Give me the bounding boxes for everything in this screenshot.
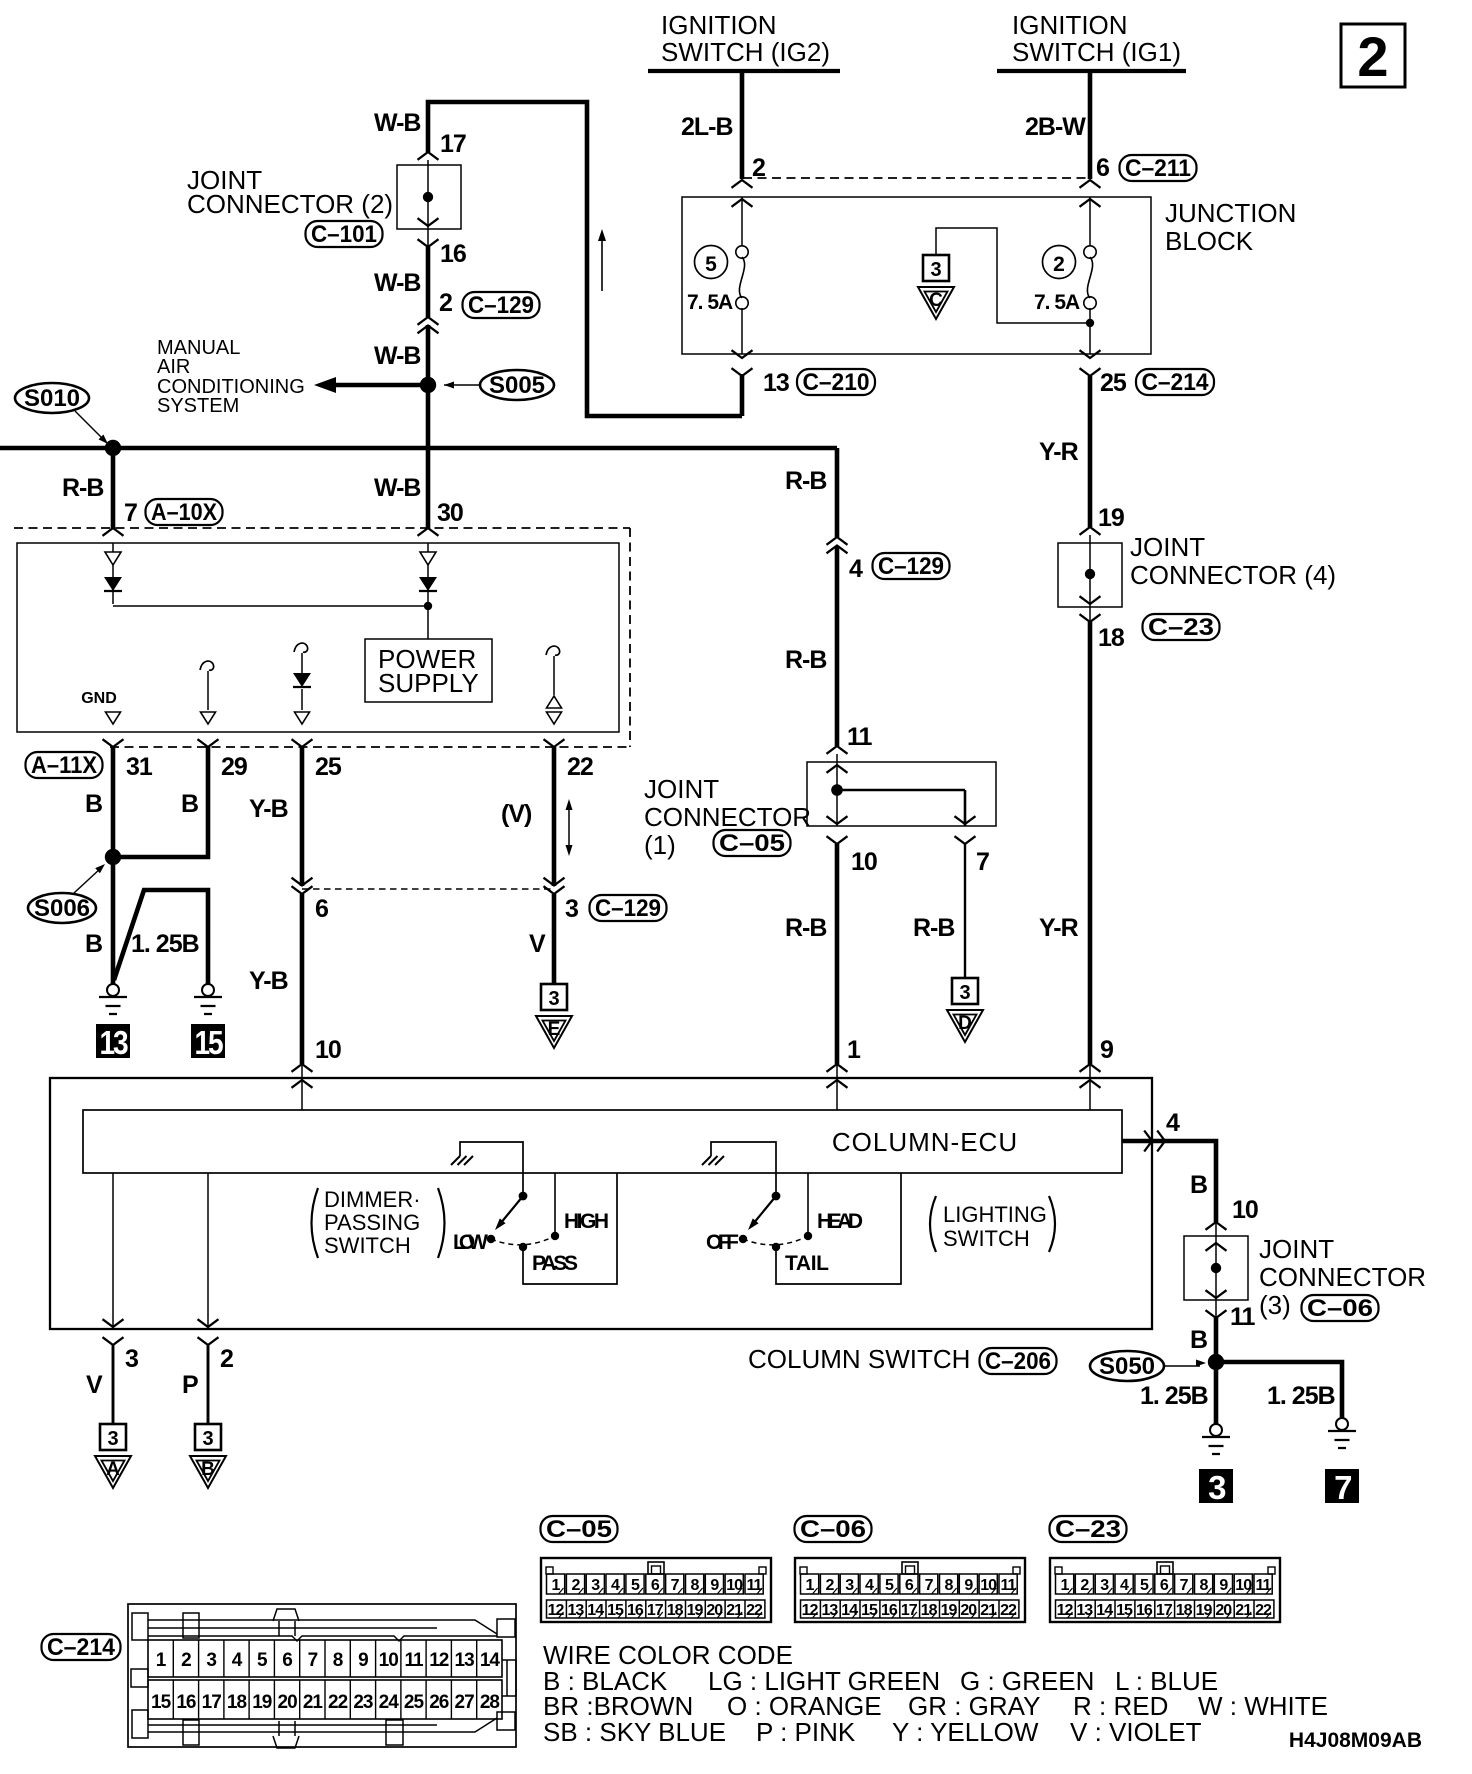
wire R-B from joint connector pin 10 to column switch pin 1: [835, 844, 840, 1064]
svg-text:18: 18: [1098, 624, 1125, 652]
svg-text:10: 10: [851, 848, 877, 876]
wire W-B branch to manual air conditioning system: [336, 383, 428, 388]
svg-text:JUNCTION: JUNCTION: [1165, 198, 1296, 228]
internal output pin 29 symbol: [200, 661, 214, 670]
wire R-B horizontal bus from S010: [0, 446, 837, 451]
svg-text:30: 30: [437, 499, 463, 527]
wire R-B from S010 to pin 7: [111, 448, 116, 528]
svg-text:S050: S050: [1099, 1353, 1155, 1380]
svg-text:2: 2: [571, 1577, 580, 1594]
lighting switch lever: [772, 1192, 781, 1201]
wire B from C-06 pin 11 to splice S050: [1214, 1316, 1219, 1362]
splice S050: [1090, 1351, 1164, 1381]
svg-text:20: 20: [278, 1692, 298, 1713]
svg-text:2L-B: 2L-B: [681, 113, 733, 141]
connector pinout C-05: [541, 1516, 618, 1542]
svg-text:25: 25: [315, 753, 342, 781]
svg-text:7: 7: [671, 1577, 680, 1594]
svg-text:V: V: [86, 1371, 103, 1399]
svg-text:21: 21: [303, 1692, 324, 1713]
column switch pin 9 entry: [1080, 1064, 1101, 1072]
fuse 2 (7.5A) in junction block: [1043, 246, 1076, 279]
svg-text:2: 2: [181, 1650, 191, 1671]
svg-text:17: 17: [202, 1692, 222, 1713]
svg-text:W-B: W-B: [374, 342, 420, 370]
svg-text:DIMMER·: DIMMER·: [324, 1187, 421, 1212]
svg-text:9: 9: [1219, 1577, 1228, 1594]
svg-text:B: B: [1190, 1326, 1207, 1354]
pin 25 chevron: [292, 739, 313, 747]
wire W-B from C-129 to splice S005: [426, 325, 431, 385]
svg-text:4: 4: [1120, 1577, 1129, 1594]
wire Y-B from pin 25: [300, 747, 305, 886]
svg-text:11: 11: [404, 1650, 424, 1671]
svg-text:24: 24: [379, 1692, 400, 1713]
svg-text:3: 3: [107, 1428, 118, 1450]
svg-text:E: E: [548, 1019, 561, 1040]
svg-text:13: 13: [1076, 1602, 1093, 1619]
ground C link wire inside junction block: [936, 228, 1088, 323]
wire Y-R from C-214 to joint connector C-23: [1088, 376, 1093, 527]
wire W-B from C-101 to C-129: [426, 247, 431, 317]
svg-text:C–06: C–06: [1307, 1295, 1373, 1322]
svg-text:20: 20: [1215, 1602, 1232, 1619]
svg-text:8: 8: [1200, 1577, 1209, 1594]
svg-text:W-B: W-B: [374, 474, 420, 502]
svg-text:26: 26: [429, 1692, 449, 1713]
splice S005: [420, 377, 436, 393]
svg-text:3: 3: [1208, 1469, 1226, 1506]
svg-text:16: 16: [1136, 1602, 1153, 1619]
svg-text:(V): (V): [501, 800, 532, 828]
svg-text:25: 25: [404, 1692, 425, 1713]
svg-text:C–206: C–206: [985, 1348, 1051, 1375]
svg-text:Y-B: Y-B: [249, 795, 288, 823]
svg-text:5: 5: [885, 1577, 894, 1594]
svg-text:2: 2: [1357, 25, 1388, 88]
svg-text:4: 4: [849, 555, 863, 583]
svg-text:5: 5: [1140, 1577, 1149, 1594]
svg-text:15: 15: [1116, 1602, 1133, 1619]
svg-text:6: 6: [1160, 1577, 1169, 1594]
svg-text:1: 1: [552, 1577, 561, 1594]
svg-text:LIGHTING: LIGHTING: [943, 1202, 1047, 1227]
lighting switch label: [930, 1196, 936, 1252]
svg-text:9: 9: [358, 1650, 368, 1671]
ground 7: [1336, 1418, 1348, 1430]
svg-text:2B-W: 2B-W: [1025, 113, 1086, 141]
ground symbol C (3): [923, 255, 949, 281]
svg-text:CONNECTOR: CONNECTOR: [644, 802, 811, 832]
svg-text:21: 21: [1235, 1602, 1252, 1619]
dimmer passing switch label: [312, 1188, 319, 1258]
svg-text:1. 25B: 1. 25B: [1267, 1382, 1335, 1410]
wire 2L-B from ignition switch IG2: [740, 71, 745, 179]
svg-text:W-B: W-B: [374, 109, 420, 137]
svg-text:C–214: C–214: [1142, 369, 1210, 396]
svg-text:1: 1: [1061, 1577, 1070, 1594]
svg-text:A–10X: A–10X: [151, 499, 217, 526]
svg-text:1. 25B: 1. 25B: [1140, 1382, 1208, 1410]
svg-text:C–101: C–101: [311, 221, 377, 248]
svg-text:19: 19: [687, 1602, 704, 1619]
wire R-B corner down to C-129 pin 4: [835, 448, 840, 537]
svg-text:16: 16: [881, 1602, 898, 1619]
svg-text:20: 20: [706, 1602, 723, 1619]
pin 29 chevron: [198, 739, 219, 747]
wire R-B from C-129 to joint connector C-05: [835, 546, 840, 746]
svg-text:9: 9: [710, 1577, 719, 1594]
svg-text:22: 22: [1255, 1602, 1272, 1619]
svg-text:10: 10: [980, 1577, 997, 1594]
wire V from column ECU pin 3: [112, 1173, 114, 1327]
svg-text:16: 16: [176, 1692, 196, 1713]
connector pinout C-214: [42, 1634, 121, 1660]
svg-text:21: 21: [726, 1602, 743, 1619]
svg-text:22: 22: [328, 1692, 348, 1713]
internal diode on pin 30 line: [427, 543, 429, 604]
svg-text:PASSING: PASSING: [324, 1210, 420, 1235]
joint connector (3) C-06: [1206, 1222, 1227, 1230]
svg-text:6: 6: [1096, 154, 1109, 182]
ground A (3): [100, 1424, 126, 1450]
svg-text:3: 3: [548, 988, 559, 1010]
svg-text:12: 12: [1057, 1602, 1074, 1619]
dimmer/passing switch chassis ground: [460, 1142, 523, 1192]
connector A-11X dashed line: [110, 746, 630, 748]
svg-text:A: A: [106, 1459, 120, 1480]
svg-text:3: 3: [1100, 1577, 1109, 1594]
svg-text:C–05: C–05: [719, 830, 785, 857]
svg-text:12: 12: [802, 1602, 819, 1619]
svg-text:SWITCH: SWITCH: [324, 1233, 411, 1258]
svg-text:SYSTEM: SYSTEM: [157, 395, 239, 417]
svg-text:11: 11: [1230, 1303, 1256, 1331]
wire PASS contact loop to ECU: [523, 1173, 617, 1284]
svg-text:W-B: W-B: [374, 269, 420, 297]
svg-text:3: 3: [202, 1428, 213, 1450]
wire V to ground E: [552, 894, 557, 984]
svg-text:C–129: C–129: [878, 553, 944, 580]
svg-text:LOW: LOW: [453, 1231, 488, 1254]
dimmer switch lever: [519, 1192, 528, 1201]
svg-text:13: 13: [822, 1602, 839, 1619]
svg-text:14: 14: [1096, 1602, 1113, 1619]
svg-text:6: 6: [651, 1577, 660, 1594]
svg-text:3: 3: [565, 895, 578, 923]
svg-text:4: 4: [611, 1577, 620, 1594]
svg-text:15: 15: [195, 1024, 224, 1061]
svg-text:AIR: AIR: [157, 356, 190, 378]
svg-text:C–06: C–06: [800, 1516, 866, 1543]
wire R-B from joint connector pin 7 to ground D: [964, 844, 966, 978]
svg-text:7: 7: [925, 1577, 934, 1594]
svg-text:20: 20: [960, 1602, 977, 1619]
dimmer switch contacts LOW PASS HIGH: [487, 1235, 495, 1243]
wire TAIL contact loop to ECU: [776, 1173, 901, 1284]
svg-text:14: 14: [841, 1602, 858, 1619]
svg-text:18: 18: [1176, 1602, 1193, 1619]
svg-text:B: B: [85, 930, 102, 958]
svg-text:13: 13: [568, 1602, 585, 1619]
svg-text:SUPPLY: SUPPLY: [378, 668, 479, 698]
svg-text:JOINT: JOINT: [644, 774, 719, 804]
svg-text:P: P: [182, 1371, 198, 1399]
svg-text:2: 2: [1080, 1577, 1089, 1594]
svg-text:1. 25B: 1. 25B: [131, 930, 199, 958]
wire W-B bus from C-210 to joint connector C-101: [740, 374, 745, 416]
dashed connector outline right edge: [629, 528, 631, 747]
svg-text:19: 19: [1098, 504, 1124, 532]
svg-text:R-B: R-B: [785, 646, 826, 674]
ground B (3): [195, 1424, 221, 1450]
node: fuse2 output to ground C: [1086, 319, 1094, 327]
connector C-211 dashed line: [743, 177, 1090, 179]
column switch outer box: [50, 1078, 1152, 1329]
svg-text:19: 19: [252, 1692, 272, 1713]
svg-text:C–211: C–211: [1125, 155, 1191, 182]
splice S006: [105, 849, 121, 865]
svg-text:S005: S005: [489, 372, 545, 399]
column switch pin 1 entry: [827, 1064, 848, 1072]
wire B from pin 31: [111, 747, 116, 857]
svg-text:10: 10: [1232, 1196, 1258, 1224]
wire B from COLUMN-ECU pin 4: [1122, 1141, 1216, 1222]
svg-text:17: 17: [647, 1602, 664, 1619]
svg-text:21: 21: [980, 1602, 997, 1619]
svg-text:SWITCH: SWITCH: [943, 1226, 1030, 1251]
svg-text:4: 4: [1166, 1109, 1180, 1137]
svg-text:SWITCH (IG1): SWITCH (IG1): [1012, 37, 1181, 67]
bidirectional arrow: [568, 806, 570, 849]
svg-text:19: 19: [941, 1602, 958, 1619]
svg-text:22: 22: [1000, 1602, 1017, 1619]
svg-text:7: 7: [1334, 1469, 1351, 1506]
svg-text:B: B: [1190, 1171, 1207, 1199]
internal node wire to power supply: [113, 605, 428, 607]
lighting switch contacts OFF TAIL HEAD: [739, 1235, 747, 1243]
svg-text:10: 10: [1235, 1577, 1252, 1594]
page number 2 box: [1341, 24, 1405, 87]
svg-text:16: 16: [440, 240, 466, 268]
ground D (3): [952, 978, 978, 1004]
svg-text:SWITCH (IG2): SWITCH (IG2): [661, 37, 830, 67]
svg-text:5: 5: [705, 253, 717, 276]
svg-text:25: 25: [1100, 369, 1127, 397]
internal diode output pin 25 symbol: [294, 643, 308, 652]
connector A-10X dashed line: [14, 527, 630, 529]
pin 22 chevron: [544, 739, 565, 747]
svg-text:14: 14: [587, 1602, 604, 1619]
joint connector C-101 (JOINT CONNECTOR (2)): [418, 152, 439, 160]
connector A-10X label: [146, 499, 223, 525]
svg-text:IGNITION: IGNITION: [1012, 10, 1128, 40]
wire 1.25B right to ground 7: [1216, 1362, 1342, 1418]
wire (V) from pin 22: [552, 747, 557, 886]
svg-text:7: 7: [1180, 1577, 1189, 1594]
svg-text:B: B: [85, 790, 102, 818]
svg-text:17: 17: [901, 1602, 918, 1619]
svg-text:4: 4: [865, 1577, 874, 1594]
svg-text:13: 13: [100, 1024, 129, 1061]
svg-text:6: 6: [315, 895, 328, 923]
connector pinout C-06: [795, 1516, 872, 1542]
svg-text:3: 3: [959, 982, 970, 1004]
svg-text:13: 13: [763, 369, 789, 397]
svg-text:TAIL: TAIL: [785, 1252, 829, 1275]
wire W-B from S005 to pin 30: [426, 385, 431, 528]
joint connector (1) C-05: [827, 746, 848, 754]
svg-text:JOINT: JOINT: [1259, 1234, 1334, 1264]
svg-text:B: B: [201, 1459, 215, 1480]
svg-text:1: 1: [156, 1650, 167, 1671]
svg-text:GND: GND: [81, 690, 117, 707]
svg-text:7. 5A: 7. 5A: [1034, 291, 1080, 314]
svg-text:C–23: C–23: [1148, 614, 1214, 641]
control unit internal box: [17, 543, 619, 732]
svg-text:19: 19: [1196, 1602, 1213, 1619]
svg-text:COLUMN-ECU: COLUMN-ECU: [832, 1127, 1018, 1157]
connector C-129 pin 3: [544, 878, 565, 886]
svg-text:17: 17: [1156, 1602, 1173, 1619]
svg-text:12: 12: [548, 1602, 565, 1619]
svg-text:7: 7: [124, 499, 137, 527]
internal diode on pin 7 line: [112, 543, 114, 604]
svg-text:17: 17: [440, 130, 466, 158]
svg-text:22: 22: [567, 753, 593, 781]
svg-text:10: 10: [379, 1650, 399, 1671]
svg-text:29: 29: [221, 753, 247, 781]
svg-text:C–129: C–129: [595, 895, 661, 922]
wire HEAD contact to ECU: [807, 1173, 809, 1232]
svg-text:2: 2: [1053, 253, 1065, 276]
wire HIGH contact to ECU: [554, 1173, 556, 1232]
svg-text:9: 9: [964, 1577, 973, 1594]
svg-text:C–129: C–129: [468, 292, 534, 319]
svg-text:18: 18: [667, 1602, 684, 1619]
svg-text:D: D: [958, 1013, 972, 1034]
wire P from column ECU pin 2: [207, 1173, 209, 1327]
svg-text:5: 5: [631, 1577, 640, 1594]
svg-text:R-B: R-B: [62, 474, 103, 502]
svg-text:Y-R: Y-R: [1039, 438, 1079, 466]
svg-text:15: 15: [151, 1692, 172, 1713]
svg-text:S006: S006: [34, 895, 90, 922]
svg-text:OFF: OFF: [706, 1231, 739, 1254]
connector C-214 pin 25: [1080, 350, 1101, 358]
junction block box: [682, 197, 1151, 354]
svg-text:3: 3: [930, 259, 941, 281]
pin 31 chevron: [103, 739, 124, 747]
svg-text:11: 11: [747, 1577, 763, 1594]
svg-text:JOINT: JOINT: [1130, 532, 1205, 562]
pin 30 chevron: [418, 528, 439, 536]
svg-text:6: 6: [282, 1650, 292, 1671]
COLUMN-ECU box: [83, 1110, 1122, 1173]
svg-text:2: 2: [439, 289, 452, 317]
svg-text:R-B: R-B: [785, 467, 826, 495]
svg-text:12: 12: [429, 1650, 449, 1671]
svg-text:H4J08M09AB: H4J08M09AB: [1289, 1729, 1422, 1752]
wire 2B-W from ignition switch IG1: [1088, 71, 1093, 179]
svg-text:1: 1: [806, 1577, 815, 1594]
svg-text:C–23: C–23: [1055, 1516, 1121, 1543]
svg-text:7: 7: [308, 1650, 318, 1671]
connector C-129 pin 4: [827, 537, 848, 545]
ground E (3): [541, 984, 567, 1010]
svg-text:1: 1: [847, 1036, 861, 1064]
pin 7 chevron: [103, 528, 124, 536]
svg-text:22: 22: [746, 1602, 763, 1619]
svg-text:CONNECTOR: CONNECTOR: [1259, 1262, 1426, 1292]
svg-text:CONNECTOR (4): CONNECTOR (4): [1130, 560, 1336, 590]
splice S010: [15, 383, 89, 413]
ground 13: [107, 984, 119, 996]
svg-text:COLUMN SWITCH: COLUMN SWITCH: [748, 1344, 970, 1374]
ground 15: [202, 984, 214, 996]
joint connector (4) C-23: [1080, 527, 1101, 535]
connector C-129 pins 6 and 3 dashed link: [302, 888, 554, 890]
svg-text:R-B: R-B: [913, 914, 954, 942]
flow direction arrow: [601, 236, 603, 291]
svg-text:7: 7: [976, 848, 989, 876]
svg-text:HIGH: HIGH: [564, 1210, 609, 1233]
fuse 5 (7.5A) in junction block: [695, 246, 728, 279]
connector C-210 pin 13: [732, 350, 753, 358]
svg-text:28: 28: [480, 1692, 500, 1713]
svg-text:10: 10: [315, 1036, 341, 1064]
svg-text:3: 3: [845, 1577, 854, 1594]
svg-text:(3): (3): [1259, 1290, 1291, 1320]
svg-text:16: 16: [627, 1602, 644, 1619]
svg-text:11: 11: [847, 723, 873, 751]
svg-text:15: 15: [861, 1602, 878, 1619]
column switch pin 10 entry: [292, 1064, 313, 1072]
svg-text:11: 11: [1256, 1577, 1272, 1594]
svg-text:14: 14: [480, 1650, 501, 1671]
wire 1.25B left to ground 3: [1214, 1362, 1219, 1424]
svg-text:BLOCK: BLOCK: [1165, 226, 1254, 256]
svg-text:13: 13: [455, 1650, 475, 1671]
svg-text:R-B: R-B: [785, 914, 826, 942]
wire B from S006 to ground 13: [111, 857, 116, 984]
svg-text:11: 11: [1001, 1577, 1017, 1594]
svg-text:2: 2: [825, 1577, 834, 1594]
lighting switch chassis ground: [711, 1142, 776, 1192]
svg-text:18: 18: [921, 1602, 938, 1619]
svg-text:9: 9: [1100, 1036, 1113, 1064]
svg-text:B: B: [181, 790, 198, 818]
svg-text:4: 4: [232, 1650, 243, 1671]
ground 3: [1210, 1424, 1222, 1436]
svg-text:8: 8: [691, 1577, 700, 1594]
svg-text:6: 6: [905, 1577, 914, 1594]
svg-text:27: 27: [455, 1692, 475, 1713]
wire Y-R from C-23 to column switch pin 9: [1088, 622, 1093, 1064]
svg-text:PASS: PASS: [532, 1252, 578, 1275]
svg-text:Y-R: Y-R: [1039, 914, 1079, 942]
svg-text:15: 15: [607, 1602, 624, 1619]
svg-text:C–210: C–210: [803, 369, 870, 396]
svg-text:V: V: [529, 930, 546, 958]
svg-text:IGNITION: IGNITION: [661, 10, 777, 40]
svg-text:C–214: C–214: [47, 1634, 116, 1661]
connector A-11X label: [26, 752, 103, 778]
svg-text:(1): (1): [644, 830, 676, 860]
svg-text:2: 2: [220, 1345, 233, 1373]
svg-text:C–05: C–05: [546, 1516, 612, 1543]
power supply box: [365, 639, 492, 702]
